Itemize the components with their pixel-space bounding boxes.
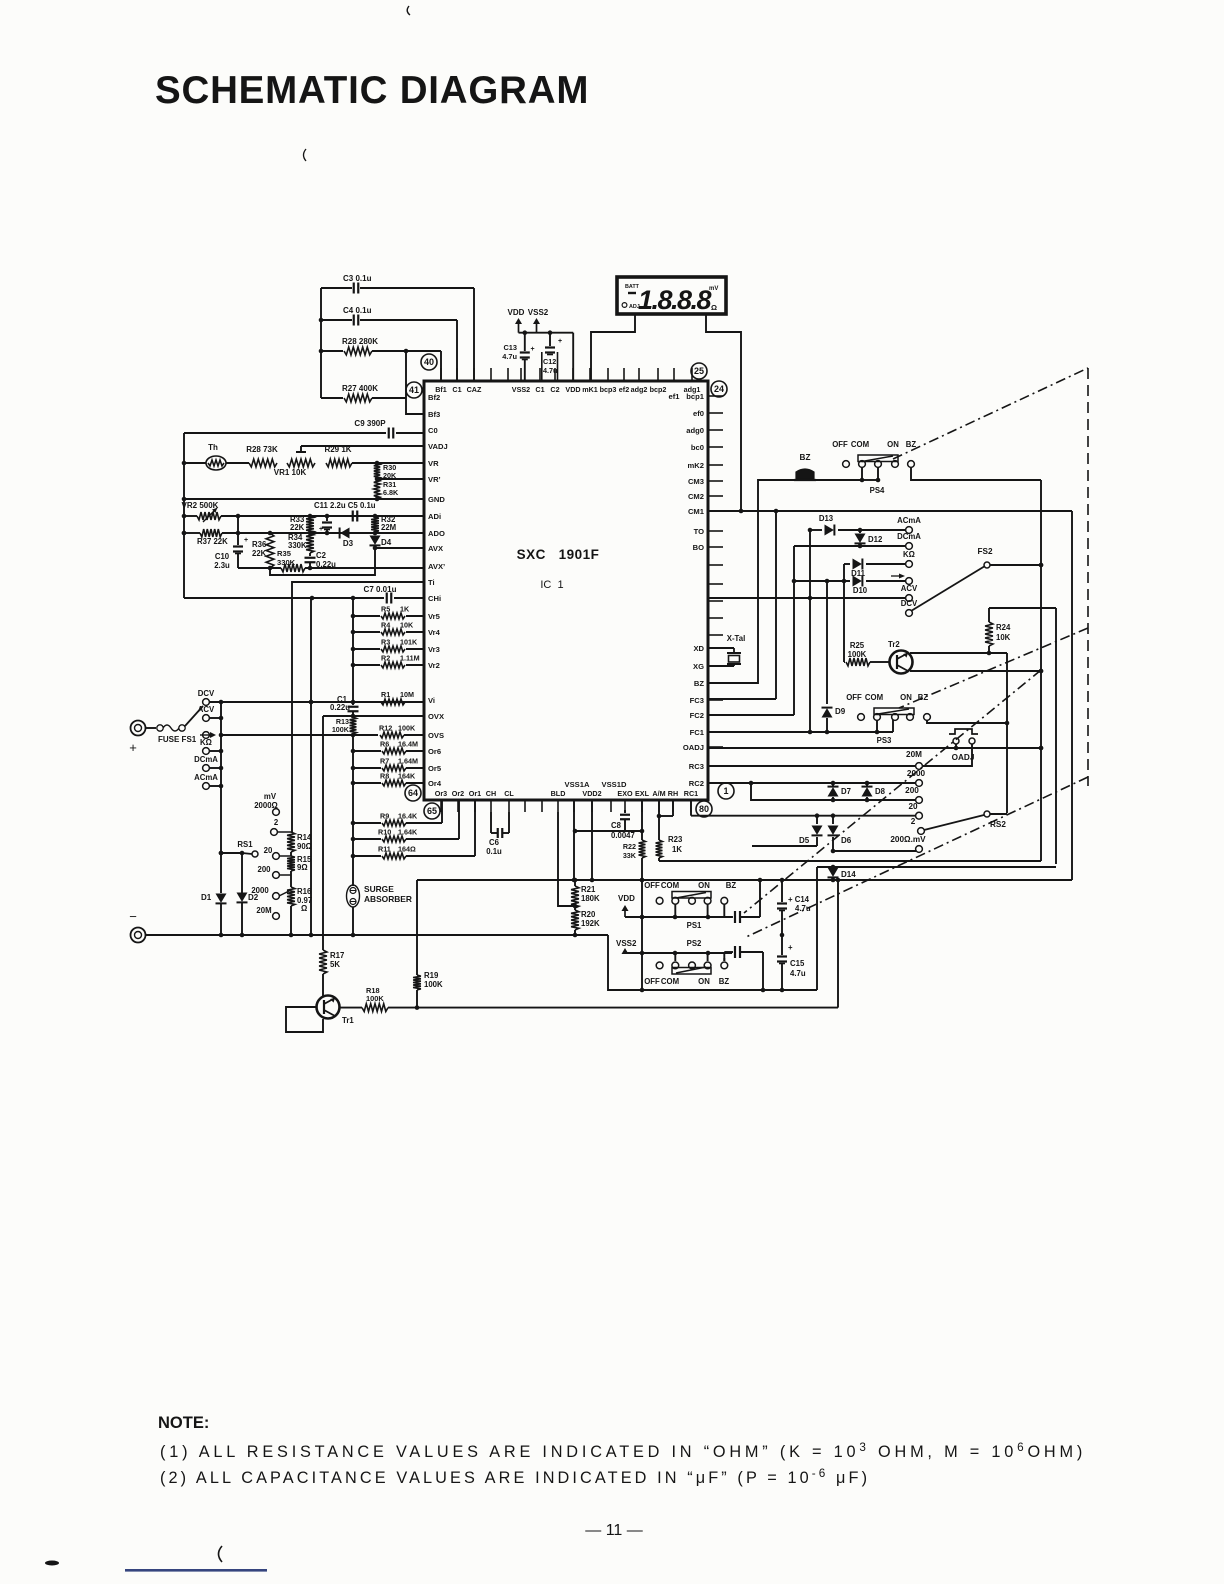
capacitor C1 0.22u [330, 695, 358, 717]
svg-text:+: + [129, 740, 137, 755]
switch arm FS1 [185, 706, 203, 726]
switch RS2 arm [924, 811, 1006, 830]
svg-text:R19: R19 [424, 971, 439, 980]
svg-text:D2: D2 [248, 893, 259, 902]
svg-text:Or3: Or3 [435, 789, 447, 798]
svg-text:R2: R2 [381, 654, 390, 663]
pin number 1 [718, 783, 734, 799]
svg-text:VDD: VDD [508, 308, 525, 317]
svg-text:16.4M: 16.4M [398, 740, 418, 749]
resistor R17 5K [319, 950, 344, 974]
svg-text:OFF: OFF [644, 881, 660, 890]
title text [155, 69, 589, 112]
svg-text:RH: RH [668, 789, 678, 798]
wire rail C1 [351, 734, 356, 886]
resistor R22 33K [623, 800, 646, 860]
diode D8 [862, 783, 886, 800]
svg-text:R22: R22 [623, 842, 636, 851]
switch PS2 [644, 939, 729, 986]
potentiometer VR1 10K [274, 446, 315, 477]
diode D1 [201, 888, 227, 935]
switch RS1 contact 200 [257, 865, 291, 878]
svg-text:COM: COM [661, 977, 679, 986]
svg-text:R7: R7 [380, 757, 389, 766]
resistor R2 1.11M [351, 654, 424, 669]
svg-text:OVS: OVS [428, 731, 444, 740]
switch FS2 arm [911, 547, 993, 611]
wire [675, 904, 724, 917]
page number [585, 1522, 643, 1539]
switch contact right ACV [901, 584, 918, 601]
wire [301, 445, 424, 447]
svg-text:200: 200 [905, 786, 919, 795]
capacitor C7 0.01u [364, 585, 424, 604]
wire minus rail [146, 933, 609, 938]
switch PS1 [644, 881, 736, 930]
wire [572, 333, 574, 381]
wire ACV row [708, 596, 905, 601]
svg-text:VDD: VDD [618, 894, 635, 903]
svg-text:D9: D9 [835, 707, 846, 716]
switch RS1 contact 20M [256, 906, 279, 919]
wire [813, 479, 862, 481]
svg-text:OVX: OVX [428, 712, 444, 721]
svg-text:R5: R5 [381, 605, 390, 614]
svg-text:22K: 22K [290, 523, 305, 532]
resistor R16 0.97ohm [287, 871, 312, 913]
svg-text:D7: D7 [841, 787, 851, 796]
wire [860, 467, 881, 482]
svg-text:10K: 10K [400, 621, 414, 630]
svg-text:Or1: Or1 [469, 789, 481, 798]
svg-text:KΩ: KΩ [200, 738, 212, 747]
svg-text:RC3: RC3 [689, 762, 704, 771]
resistor R29 1K [324, 445, 352, 467]
wire [209, 700, 424, 705]
resistor R15 9ohm [287, 852, 312, 872]
net VDD PS1 [618, 894, 635, 917]
resistor R37 22K [184, 529, 424, 546]
capacitor C10 2.3u [214, 516, 248, 570]
diode D9 [822, 581, 846, 732]
svg-text:PS1: PS1 [687, 921, 702, 930]
wire AVXp row [268, 566, 424, 571]
wire [352, 907, 354, 935]
svg-text:100K: 100K [332, 725, 350, 734]
switch contact right ACmA [897, 516, 921, 533]
svg-text:2000Ω: 2000Ω [254, 801, 278, 810]
svg-text:(1) ALL RESISTANCE VALUES ARE: (1) ALL RESISTANCE VALUES ARE INDICATED … [160, 1441, 1086, 1461]
svg-text:VDD2: VDD2 [582, 789, 601, 798]
wire [352, 461, 424, 466]
svg-text:mK1: mK1 [582, 385, 598, 394]
svg-text:A/M: A/M [652, 789, 665, 798]
switch contact ACmA [194, 773, 218, 789]
wire [927, 653, 1009, 725]
fuse FS1 [145, 725, 197, 744]
net VDD [508, 308, 525, 333]
wire [836, 878, 841, 1008]
op-amp U1 IC1 SXC1901F [424, 381, 708, 800]
svg-text:1.11M: 1.11M [400, 654, 420, 663]
stray mark paren mid [304, 149, 307, 161]
wire riser 844 [843, 564, 845, 662]
svg-text:R11: R11 [378, 845, 391, 854]
transistor Tr1 [317, 996, 355, 1026]
capacitor C15 4.7u [777, 935, 806, 990]
svg-text:Or5: Or5 [428, 764, 442, 773]
switch RS2 contact 200mV [890, 835, 926, 852]
svg-text:164K: 164K [398, 772, 416, 781]
svg-text:C9 390P: C9 390P [354, 419, 386, 428]
resistor R6 16.4M [353, 740, 424, 755]
svg-text:22K: 22K [252, 549, 267, 558]
wire R18 row [415, 1005, 838, 1010]
svg-text:330K: 330K [277, 558, 296, 567]
diode D7 [828, 783, 851, 800]
svg-text:ACV: ACV [901, 584, 918, 593]
stray mark paren top [407, 6, 410, 15]
svg-text:R16: R16 [297, 887, 312, 896]
svg-text:Ti: Ti [428, 578, 435, 587]
svg-text:R20: R20 [581, 910, 596, 919]
wire BZ [708, 480, 797, 683]
svg-text:Bf1: Bf1 [435, 385, 447, 394]
note heading [158, 1414, 209, 1432]
svg-text:0.1u: 0.1u [486, 847, 502, 856]
svg-text:4.7u: 4.7u [543, 366, 557, 375]
svg-text:R8: R8 [380, 772, 389, 781]
svg-text:D10: D10 [853, 586, 868, 595]
svg-text:AVX’: AVX’ [428, 562, 445, 571]
svg-text:200: 200 [257, 865, 271, 874]
net VSS2 PS2 [616, 939, 642, 954]
svg-text:RC1: RC1 [684, 789, 698, 798]
svg-text:D3: D3 [343, 539, 354, 548]
svg-text:ON: ON [698, 881, 710, 890]
svg-text:6.8K: 6.8K [383, 488, 399, 497]
wire RC3 row [708, 765, 916, 767]
svg-text:101K: 101K [400, 638, 418, 647]
svg-text:ON: ON [900, 693, 912, 702]
capacitor PS2 bz cap [724, 946, 763, 961]
svg-text:DCmA: DCmA [897, 532, 921, 541]
wire [706, 314, 741, 511]
wire [404, 349, 441, 381]
svg-text:BZ: BZ [918, 693, 929, 702]
svg-text:PS2: PS2 [687, 939, 702, 948]
svg-text:Bf2: Bf2 [428, 393, 440, 402]
svg-text:C1: C1 [452, 385, 461, 394]
svg-text:ON: ON [698, 977, 710, 986]
label C11 C5 [314, 501, 376, 510]
wire riser 794 [708, 546, 794, 715]
resistor R30 20K [374, 463, 397, 480]
wire A/M RH row [659, 800, 673, 816]
svg-text:100K: 100K [424, 980, 443, 989]
svg-text:FC3: FC3 [690, 696, 704, 705]
svg-text:BZ: BZ [906, 440, 917, 449]
svg-text:SURGE: SURGE [364, 884, 394, 894]
pin number 65 [424, 803, 440, 819]
svg-text:RC2: RC2 [689, 779, 704, 788]
dashed link PS1 [744, 670, 1041, 913]
capacitor C11 2.2u [319, 516, 332, 533]
svg-text:ADi: ADi [428, 512, 441, 521]
svg-text:bcp3: bcp3 [600, 385, 617, 394]
svg-text:R21: R21 [581, 885, 596, 894]
svg-text:+: + [244, 537, 248, 544]
wire [519, 330, 574, 335]
svg-text:R28 280K: R28 280K [342, 337, 378, 346]
svg-text:BZ: BZ [800, 453, 811, 462]
LCD display module [617, 277, 726, 315]
wire row861 [659, 860, 1041, 862]
svg-text:D1: D1 [201, 893, 212, 902]
svg-text:mV: mV [709, 286, 718, 292]
svg-text:R9: R9 [380, 812, 389, 821]
svg-text:100K: 100K [366, 994, 384, 1003]
wire [270, 548, 375, 575]
note line 1 [160, 1441, 1086, 1461]
transistor Tr2 [888, 640, 913, 674]
svg-text:20: 20 [264, 846, 273, 855]
wire [608, 935, 817, 992]
wire BLD link [558, 812, 577, 908]
svg-text:C11 2.2u C5 0.1u: C11 2.2u C5 0.1u [314, 501, 376, 510]
svg-text:VADJ: VADJ [428, 442, 448, 451]
svg-text:C8: C8 [611, 821, 622, 830]
wire VSS1A stub [572, 800, 577, 882]
wire [319, 320, 457, 381]
svg-text:PS4: PS4 [870, 486, 885, 495]
svg-text:9Ω: 9Ω [297, 863, 308, 872]
svg-text:CM3: CM3 [688, 477, 704, 486]
svg-text:R36: R36 [252, 540, 267, 549]
svg-text:R10: R10 [378, 828, 391, 837]
surge absorber [347, 884, 412, 907]
resistor R18 100K [340, 986, 417, 1012]
resistor R1 10M [381, 690, 414, 705]
svg-text:20: 20 [908, 802, 918, 811]
svg-text:AVX: AVX [428, 544, 443, 553]
svg-text:VR’: VR’ [428, 475, 441, 484]
pin number 24 [711, 381, 727, 397]
switch RS2 contact 2000 [907, 769, 926, 786]
svg-text:192K: 192K [581, 919, 600, 928]
wire Tr2 emitter [910, 651, 1007, 656]
svg-text:VSS2: VSS2 [616, 939, 637, 948]
svg-text:bcp2: bcp2 [650, 385, 667, 394]
svg-text:C2: C2 [316, 551, 327, 560]
wire vr rail [352, 598, 354, 700]
svg-text:VDD: VDD [565, 385, 580, 394]
resistor R12 100K [379, 724, 424, 739]
svg-text:65: 65 [427, 806, 437, 816]
wire [221, 514, 424, 519]
terminal minus [129, 909, 145, 943]
svg-text:OFF: OFF [832, 440, 848, 449]
wire vert 1056 [1055, 608, 1057, 864]
svg-text:Vi: Vi [428, 696, 435, 705]
svg-text:adg1: adg1 [684, 385, 701, 394]
svg-text:+: + [531, 346, 535, 353]
svg-text:5K: 5K [330, 960, 340, 969]
wire 200 row [749, 781, 916, 803]
resistor R32 22M [371, 515, 396, 532]
svg-text:VSS1A: VSS1A [565, 780, 590, 789]
wire [209, 716, 223, 721]
svg-text:KΩ: KΩ [903, 550, 915, 559]
svg-text:R23: R23 [668, 835, 683, 844]
resistor R34 330K [288, 533, 314, 553]
wire [182, 531, 378, 536]
switch RS2 contact 20M [906, 750, 922, 769]
svg-text:R35: R35 [277, 549, 292, 558]
capacitor C6 0.1u [486, 812, 509, 856]
capacitor C13 4.7u [502, 333, 534, 381]
resistor R11 164ohm [353, 845, 475, 860]
wire [675, 953, 724, 961]
svg-text:Ω: Ω [301, 904, 307, 913]
wire [373, 546, 378, 551]
svg-text:CM1: CM1 [688, 507, 705, 516]
svg-text:20M: 20M [906, 750, 922, 759]
svg-text:BZ: BZ [694, 679, 704, 688]
wire [290, 906, 292, 935]
svg-text:80: 80 [699, 804, 709, 814]
switch contact right arrow [906, 578, 913, 585]
wire [911, 467, 1041, 480]
svg-text:41: 41 [409, 385, 419, 395]
wire collector riser [322, 716, 324, 950]
svg-text:Vr4: Vr4 [428, 628, 441, 637]
switch contact right K&#937; [903, 550, 915, 567]
switch contact arrow [203, 732, 210, 739]
resistor R8 164K [353, 772, 424, 787]
svg-text:R28 73K: R28 73K [246, 445, 278, 454]
svg-text:2: 2 [274, 818, 279, 827]
stray mark blob [45, 1561, 59, 1566]
svg-text:10K: 10K [996, 633, 1011, 642]
svg-text:DCV: DCV [198, 689, 215, 698]
wire row880 [417, 878, 1072, 883]
svg-text:FC1: FC1 [690, 728, 705, 737]
svg-text:BO: BO [693, 543, 704, 552]
wire [989, 607, 1056, 609]
resistor R19 100K [413, 880, 443, 1008]
svg-text:FS2: FS2 [977, 547, 992, 556]
svg-text:ef1: ef1 [669, 392, 681, 401]
svg-text:Vr3: Vr3 [428, 645, 440, 654]
svg-text:R6: R6 [380, 740, 389, 749]
svg-text:22M: 22M [381, 523, 396, 532]
switch RS1 arm [219, 840, 258, 857]
svg-text:33K: 33K [623, 851, 637, 860]
pin number 25 [691, 363, 707, 379]
svg-text:1.8.8.8: 1.8.8.8 [638, 285, 712, 315]
resistor R28 280K [321, 337, 441, 355]
wire row867 [817, 866, 1056, 868]
svg-text:20M: 20M [256, 906, 271, 915]
svg-text:D8: D8 [875, 787, 886, 796]
switch RS1 contact 2000 [251, 886, 291, 899]
svg-text:EXO: EXO [617, 789, 633, 798]
resistor R7 1.64M [353, 757, 424, 772]
wire vert 1072 [1071, 511, 1073, 880]
svg-text:C6: C6 [489, 838, 500, 847]
capacitor C14 4.7u [777, 880, 811, 937]
svg-text:ACmA: ACmA [897, 516, 921, 525]
wire [184, 462, 249, 464]
resistor R20 192K [571, 908, 600, 935]
resistor R4 10K [351, 621, 424, 636]
svg-text:VSS2: VSS2 [512, 385, 530, 394]
svg-text:DCV: DCV [901, 599, 918, 608]
wire [182, 433, 187, 598]
svg-text:XG: XG [693, 662, 704, 671]
wire OVS [221, 733, 378, 738]
wire [642, 951, 732, 956]
svg-text:IC 1: IC 1 [540, 579, 563, 591]
diode D12 [855, 528, 883, 549]
IC right pin labels and stubs [683, 392, 723, 788]
wire AVX row [375, 547, 424, 549]
svg-text:RS1: RS1 [237, 840, 253, 849]
switch RS2 contact 200 [905, 786, 922, 803]
resistor R24 10K [985, 608, 1011, 653]
svg-text:1.64K: 1.64K [398, 828, 418, 837]
svg-text:Th: Th [208, 443, 218, 452]
capacitor C4 [321, 306, 457, 326]
svg-text:TO: TO [694, 527, 705, 536]
svg-text:mV: mV [264, 792, 277, 801]
svg-text:ef2: ef2 [619, 385, 629, 394]
switch RS1 contact 2 [271, 818, 291, 835]
svg-text:OFF: OFF [846, 693, 862, 702]
svg-text:25: 25 [694, 366, 704, 376]
svg-text:C12: C12 [543, 357, 556, 366]
svg-text:bc0: bc0 [691, 443, 704, 452]
switch RS2 contact 20 [908, 802, 922, 819]
wire [375, 477, 424, 482]
svg-text:R29 1K: R29 1K [324, 445, 351, 454]
wire [319, 288, 474, 381]
diode D2 [237, 853, 259, 935]
svg-text:R27 400K: R27 400K [342, 384, 378, 393]
svg-text:2: 2 [911, 817, 916, 826]
svg-text:— 11 —: — 11 — [585, 1522, 643, 1539]
svg-text:C7 0.01u: C7 0.01u [364, 585, 397, 594]
svg-text:64: 64 [408, 788, 418, 798]
switch contact DCV [198, 689, 215, 705]
resistor R31 6.8K [374, 479, 399, 499]
diode D14 [828, 865, 857, 880]
net VSS2 [528, 308, 549, 333]
svg-text:40: 40 [424, 357, 434, 367]
wire Ti [292, 582, 424, 832]
thermistor Th [206, 443, 226, 470]
dashed link PS3 [899, 628, 1088, 708]
svg-text:D12: D12 [868, 535, 883, 544]
svg-text:0.0047: 0.0047 [611, 831, 635, 840]
wire [954, 744, 959, 750]
wire [209, 784, 223, 789]
switch contact DCmA [194, 755, 218, 771]
dashed vertical [1087, 368, 1089, 786]
crystal X-Tal [708, 634, 745, 666]
svg-text:Tr1: Tr1 [342, 1016, 354, 1025]
